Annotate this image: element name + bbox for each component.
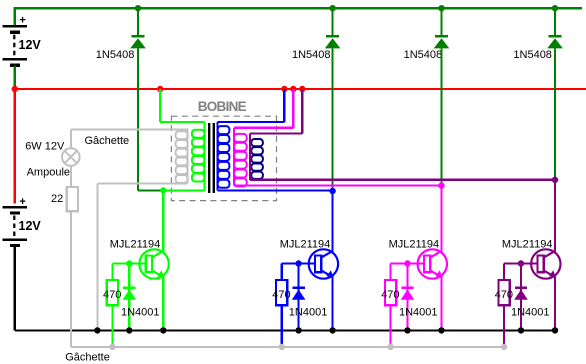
wire: red bus to winding W4 top (ch3 magenta) <box>234 89 293 128</box>
wire: base clamp diode column <box>298 264 300 331</box>
wire: base node to resistor R4 <box>504 264 521 281</box>
wire: red bus to winding W2 top (ch1 green) <box>160 89 204 122</box>
winding W1 trigger (gray) <box>176 130 188 184</box>
label 6W 12V <box>25 141 65 153</box>
winding W2 primary ch1 (green) <box>192 122 205 190</box>
wire: Q1 emitter to ground bus <box>162 277 164 330</box>
winding W5 primary ch4 (navy) <box>251 139 263 179</box>
wire: red bus to winding W5 top (ch4 purple) <box>250 89 302 134</box>
junction: ch1 primary tap on red bus <box>157 86 163 92</box>
label Gachette (top) <box>85 135 130 147</box>
svg-text:BOBINE: BOBINE <box>198 99 247 114</box>
wire: winding W3 bottom to ch2 collector node <box>218 189 333 191</box>
svg-text:1N5408: 1N5408 <box>292 49 331 61</box>
label DB1 1N4001 <box>121 306 160 318</box>
diode D4 1N5408 <box>547 36 563 48</box>
transistor Q3 MJL21194 <box>418 249 447 278</box>
junction: Q3 base node <box>404 260 410 266</box>
resistor R2 470 <box>276 280 287 305</box>
wire: Q3 collector <box>440 186 442 251</box>
wire: Q2 emitter to ground bus <box>332 277 334 330</box>
label R1 value 470 <box>103 289 121 301</box>
wire: Q1 base lead <box>129 262 146 264</box>
label Q1 MJL21194 <box>110 238 161 250</box>
lamp LP1 Ampoule 6W 12V <box>62 148 80 166</box>
junction: Q4 base node <box>518 260 524 266</box>
label R4 value 470 <box>495 289 513 301</box>
svg-text:1N4001: 1N4001 <box>511 306 550 318</box>
wire: battery B1 - to red +12V bus <box>14 66 16 89</box>
label Gachette (bottom) <box>65 352 110 364</box>
wire: D1 anode down to channel-1 collector node <box>138 48 163 190</box>
wire: lamp to resistor R5 <box>70 166 72 187</box>
transistor Q1 MJL21194 <box>139 249 168 278</box>
diode D1 1N5408 <box>130 36 146 48</box>
transformer BOBINE enclosure (dashed) <box>171 116 276 200</box>
wire: Q2 base lead <box>299 262 316 264</box>
diode DB2 1N4001 <box>292 288 306 300</box>
label R5 value 22 <box>51 193 63 205</box>
wire: D4 anode down to collector node <box>554 48 556 179</box>
junction: R1 on trigger bus <box>109 344 115 350</box>
junction: R2 on trigger bus <box>279 344 285 350</box>
label BOBINE <box>198 99 247 114</box>
wire: base clamp diode column <box>406 264 408 331</box>
wire: Q4 collector <box>554 180 556 251</box>
svg-text:6W 12V: 6W 12V <box>25 141 65 153</box>
wire: resistor R5 down to gray trigger bus <box>71 211 505 347</box>
junction: B1- / red bus / B2+ <box>12 86 18 92</box>
transformer core <box>208 123 215 193</box>
junction: Q1 emitter on ground bus <box>160 327 166 333</box>
svg-text:470: 470 <box>272 289 290 301</box>
junction: ch4 primary tap on red bus <box>299 86 305 92</box>
svg-text:1N4001: 1N4001 <box>289 306 328 318</box>
wire: base clamp diode column <box>128 264 130 331</box>
wire: resistor R2 to trigger bus <box>281 305 283 347</box>
svg-text:1N4001: 1N4001 <box>399 306 438 318</box>
wire: winding W2 bottom to ch1 collector node <box>163 189 204 191</box>
junction: R3 on trigger bus <box>387 344 393 350</box>
junction: R4 on trigger bus <box>501 344 507 350</box>
junction: ch2 collector node <box>329 188 335 194</box>
label D3 1N5408 <box>404 49 443 61</box>
label Q3 MJL21194 <box>389 238 440 250</box>
junction: DB2 on ground bus <box>295 327 301 333</box>
wire: base clamp diode column <box>520 264 522 331</box>
diode D2 1N5408 <box>325 36 341 48</box>
label D4 1N5408 <box>513 49 552 61</box>
svg-text:Gâchette: Gâchette <box>65 352 110 364</box>
label R2 value 470 <box>272 289 290 301</box>
junction: ch1 collector node <box>160 187 166 193</box>
resistor R4 470 <box>499 280 510 305</box>
wire: battery B2 - down and right to ground bus <box>15 247 557 331</box>
wire: diode D4 column from green bus <box>554 8 556 36</box>
label DB2 1N4001 <box>289 306 328 318</box>
wire: red +12V bus <box>15 88 586 90</box>
transistor Q4 MJL21194 <box>531 249 560 278</box>
label Q2 MJL21194 <box>280 238 331 250</box>
wire: trigger top lead from lamp to winding W1 <box>71 130 189 149</box>
diode D3 1N5408 <box>434 36 450 48</box>
svg-text:Ampoule: Ampoule <box>27 166 70 178</box>
svg-text:1N4001: 1N4001 <box>121 306 160 318</box>
junction: ch3 collector node <box>438 182 444 188</box>
junction: Q2 base node <box>295 260 301 266</box>
winding W4 primary ch3 (magenta) <box>234 128 247 187</box>
label DB3 1N4001 <box>399 306 438 318</box>
wire: diode D3 column from green bus <box>440 8 442 36</box>
diode DB3 1N4001 <box>401 288 415 300</box>
wire: D2 anode down to collector node <box>332 48 334 190</box>
junction: Q1 base node <box>126 260 132 266</box>
junction: Q4 emitter on ground bus <box>552 327 558 333</box>
wire: Q4 emitter to ground bus <box>554 277 556 330</box>
junction: ch3 primary tap on red bus <box>290 86 296 92</box>
wire: resistor R1 to trigger bus <box>111 305 113 347</box>
wire: resistor R3 to trigger bus <box>390 305 392 347</box>
wire: Q3 emitter to ground bus <box>440 277 442 330</box>
wire: red bus to winding W3 top (ch2 blue) <box>218 89 285 122</box>
label R3 value 470 <box>381 289 399 301</box>
wire: ch4 winding frame (purple) <box>249 134 251 180</box>
junction: Q2 emitter on ground bus <box>329 327 335 333</box>
transistor Q2 MJL21194 <box>309 249 338 278</box>
svg-text:12V: 12V <box>19 219 42 233</box>
junction: W1 return on ground bus <box>94 327 100 333</box>
junction: ch4 collector node <box>552 177 558 183</box>
wire: base node to resistor R1 <box>112 264 129 281</box>
label D1 1N5408 <box>96 49 135 61</box>
node: green bus junction at diode D4 <box>552 5 558 11</box>
wire: base node to resistor R3 <box>391 264 408 281</box>
node: green bus junction at diode D3 <box>438 5 444 11</box>
label DB4 1N4001 <box>511 306 550 318</box>
wire: Q2 collector <box>332 191 334 251</box>
wire: base node to resistor R2 <box>282 264 299 281</box>
wire: D3 anode down to collector node <box>440 48 442 185</box>
wire: resistor R4 to trigger bus <box>503 305 505 347</box>
wire: diode D2 column from green bus <box>332 8 334 36</box>
wire: diode D1 column from green bus <box>137 8 139 36</box>
battery B2 12V (lower left) <box>3 196 42 246</box>
wire: Q4 base lead <box>521 262 538 264</box>
svg-text:1N5408: 1N5408 <box>404 49 443 61</box>
svg-text:12V: 12V <box>19 38 42 52</box>
svg-text:+: + <box>19 15 25 27</box>
winding W3 primary ch2 (blue) <box>218 122 230 190</box>
svg-text:1N5408: 1N5408 <box>96 49 135 61</box>
junction: DB1 on ground bus <box>126 327 132 333</box>
junction: DB4 on ground bus <box>518 327 524 333</box>
svg-text:470: 470 <box>103 289 121 301</box>
svg-text:1N5408: 1N5408 <box>513 49 552 61</box>
resistor R5 22 <box>67 187 78 211</box>
wire: winding W5 bottom (purple) to ch4 collector node <box>250 179 555 181</box>
battery B1 12V (top left) <box>3 15 42 66</box>
svg-text:Gâchette: Gâchette <box>85 135 130 147</box>
resistor R1 470 <box>107 280 118 305</box>
label Q4 MJL21194 <box>502 238 553 250</box>
wire: Q1 collector <box>162 190 164 250</box>
junction: ch2 primary tap on red bus <box>281 86 287 92</box>
node: green bus junction at diode D1 <box>135 5 141 11</box>
wire: red bus down to battery B2 + <box>14 89 16 204</box>
node: green bus junction at diode D2 <box>329 5 335 11</box>
wire: Q3 base lead <box>408 262 425 264</box>
svg-text:470: 470 <box>495 289 513 301</box>
junction: Q3 emitter on ground bus <box>438 327 444 333</box>
diode DB4 1N4001 <box>514 288 528 300</box>
resistor R3 470 <box>385 280 396 305</box>
wire: winding W1 bottom lead to ground <box>97 183 187 330</box>
wire: winding W4 bottom to ch3 collector node <box>234 185 442 187</box>
diode DB1 1N4001 <box>123 288 137 300</box>
label Ampoule <box>27 166 70 178</box>
svg-text:22: 22 <box>51 193 63 205</box>
wire: green bus from battery B1 + to diode anodes (top) <box>14 7 582 26</box>
junction: DB3 on ground bus <box>404 327 410 333</box>
label D2 1N5408 <box>292 49 331 61</box>
svg-text:470: 470 <box>381 289 399 301</box>
